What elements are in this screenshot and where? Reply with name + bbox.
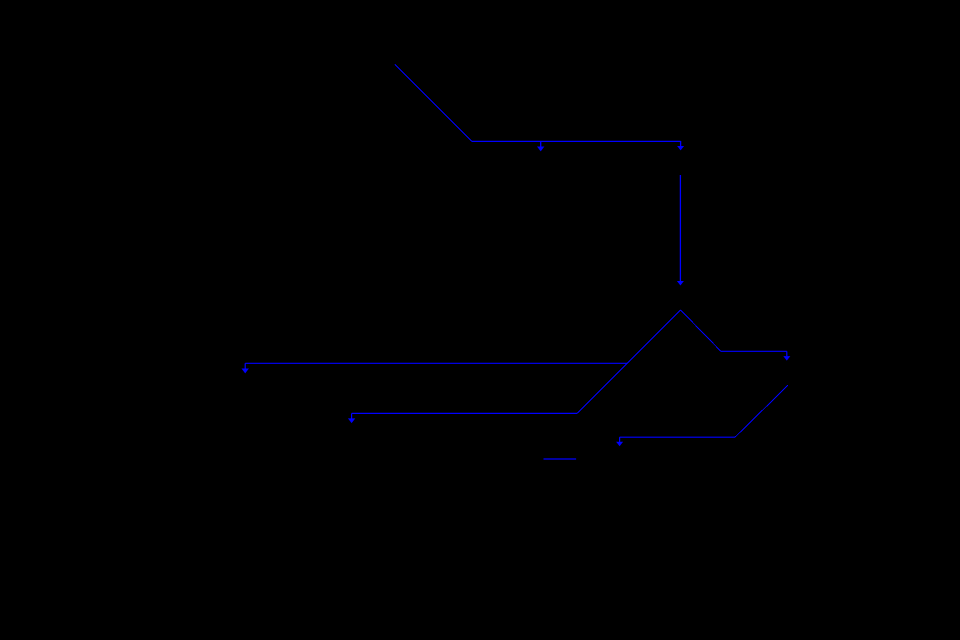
wire trunk from top node: diagonal then horizontal bus — [395, 65, 681, 142]
arrow into node B (mid-bus, x=540.7) — [537, 141, 544, 151]
wire node G to node H: diagonal down-left then horizontal — [616, 385, 788, 446]
arrow into node C (bus end corner, x=680.6) — [677, 141, 684, 150]
wire stub segment near node H — [544, 458, 577, 460]
wire node D to node G: right diagonal then horizontal — [681, 310, 791, 361]
wire node C to node D: vertical drop — [677, 175, 684, 286]
wire node D to node E: left diagonal then long horizontal — [348, 310, 681, 423]
wire node D branch to node F: shares diagonal, horizontal at y=363.3 — [242, 363, 628, 373]
